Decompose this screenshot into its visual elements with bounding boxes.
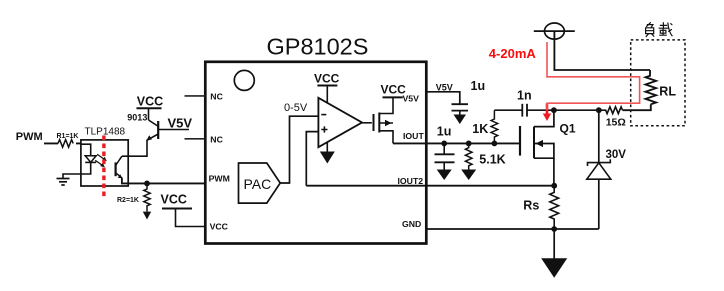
pin NC1 label xyxy=(210,91,223,101)
svg-text:GND: GND xyxy=(402,219,421,229)
capacitor C1 1u xyxy=(452,104,469,114)
wire V5V pin to cap xyxy=(426,92,460,104)
net label V5V left xyxy=(168,116,193,131)
transistor Q1 MOSFET xyxy=(520,110,554,186)
current loop source circle xyxy=(534,23,575,39)
svg-text:IOUT2: IOUT2 xyxy=(398,176,424,186)
wire VCC bar to VCC pin xyxy=(176,209,206,227)
load box dashed 负载 xyxy=(631,40,685,126)
pin VCC label xyxy=(210,221,229,231)
red inspection dashed line xyxy=(102,136,105,197)
label 1u second xyxy=(437,125,452,139)
capacitor C2 1u xyxy=(435,143,455,169)
svg-text:15Ω: 15Ω xyxy=(606,116,626,128)
power VCC near chip VCC pin bar xyxy=(162,208,192,210)
transistor internal MOSFET xyxy=(374,97,394,143)
label R1=1K xyxy=(57,133,79,140)
wire 9013 base to V5V xyxy=(158,129,189,131)
transistor Q2 9013 xyxy=(146,108,158,140)
wire source to loop top xyxy=(554,31,650,75)
pin GND label xyxy=(402,219,421,229)
wire IOUT2 net xyxy=(306,185,554,187)
zener diode D1 30V xyxy=(587,110,611,229)
label 4-20mA red xyxy=(489,46,537,61)
svg-text:4-20mA: 4-20mA xyxy=(489,46,537,61)
svg-text:PWM: PWM xyxy=(209,173,230,183)
resistor R4 5.1K xyxy=(465,143,472,169)
wire 1K top to 1n cap xyxy=(494,109,521,111)
svg-text:VCC: VCC xyxy=(137,94,163,108)
ground GND1 (earth bars) xyxy=(57,179,70,186)
junction node IOUT/1K xyxy=(492,141,498,147)
ground arrow below C2 xyxy=(437,170,452,181)
ground arrow below opamp xyxy=(320,142,335,164)
resistor Rs zigzag xyxy=(550,186,559,229)
svg-text:RL: RL xyxy=(659,84,676,98)
phototransistor of optocoupler xyxy=(116,156,123,178)
pin V5V label xyxy=(403,94,420,104)
junction node Q1 drain xyxy=(551,107,557,113)
resistor R3 1K xyxy=(491,110,498,143)
label PWM xyxy=(16,131,43,143)
label 1u first xyxy=(471,79,486,93)
svg-text:PAC: PAC xyxy=(244,176,272,192)
wire RL bottom to 15ohm xyxy=(623,104,651,110)
power VCC mosfet bar xyxy=(383,96,403,98)
power VCC top-left bar xyxy=(137,107,162,109)
junction node zener top xyxy=(596,107,602,113)
svg-text:NC: NC xyxy=(210,91,223,101)
svg-text:0-5V: 0-5V xyxy=(284,102,308,114)
resistor R5 15ohm zigzag xyxy=(599,107,623,114)
svg-text:R1=1K: R1=1K xyxy=(57,133,79,140)
IC title GP8102S xyxy=(267,34,369,60)
resistor R2 zigzag xyxy=(144,183,150,211)
pin NC2 label xyxy=(210,135,223,145)
label 5.1K xyxy=(479,152,505,166)
svg-text:30V: 30V xyxy=(606,149,627,161)
resistor R1 zigzag xyxy=(58,140,73,148)
label R2=1K xyxy=(117,197,139,204)
optocoupler U2 box xyxy=(81,140,128,186)
net label V5V right xyxy=(436,83,453,93)
LED light arrows xyxy=(95,154,107,167)
power VCC near chip VCC pin label xyxy=(161,193,187,207)
pin NC1 stub xyxy=(185,95,206,97)
ground arrow below R2 xyxy=(143,212,151,220)
label 1n xyxy=(517,88,532,102)
wire phototransistor collector to 9013 emitter xyxy=(122,140,147,157)
junction node GND/Rs xyxy=(551,226,557,232)
wire 1n to Q1 drain node xyxy=(527,109,599,111)
label 15ohm xyxy=(606,116,626,128)
resistor RL zigzag xyxy=(646,76,657,105)
ground arrow below C1 xyxy=(454,115,467,125)
svg-text:GP8102S: GP8102S xyxy=(267,34,369,60)
svg-text:PWM: PWM xyxy=(16,131,43,143)
ground arrow below 5.1K xyxy=(461,170,476,181)
label TLP1488 xyxy=(85,126,126,137)
pin IOUT label xyxy=(403,131,424,141)
junction node IOUT2/Rs xyxy=(551,183,557,189)
label RL xyxy=(659,84,676,98)
wire LED anode xyxy=(81,144,91,156)
svg-text:R2=1K: R2=1K xyxy=(117,197,139,204)
wire PAC output to opamp minus xyxy=(280,116,318,183)
junction node R2/PWM xyxy=(144,181,150,187)
svg-text:VCC: VCC xyxy=(210,221,229,231)
wire IOUT net xyxy=(393,142,520,144)
svg-text:1u: 1u xyxy=(437,125,452,139)
svg-text:1n: 1n xyxy=(517,88,532,102)
svg-text:Q1: Q1 xyxy=(560,121,576,135)
diode LED of optocoupler xyxy=(85,156,96,163)
svg-text:V5V: V5V xyxy=(168,116,193,131)
capacitor C3 1n xyxy=(522,104,527,117)
red measure arrow at Q1 gate xyxy=(543,104,551,122)
power VCC opamp bar xyxy=(317,85,337,87)
pin IOUT2 label xyxy=(398,176,424,186)
junction node IOUT/5.1K xyxy=(466,141,472,147)
wire opamp out to mosfet gate xyxy=(362,122,372,124)
ground main arrow xyxy=(541,229,567,278)
svg-text:VCC: VCC xyxy=(381,82,407,96)
svg-text:VCC: VCC xyxy=(314,72,340,86)
pin-1 marker circle xyxy=(234,70,254,90)
op-amp U1A triangle xyxy=(318,98,362,147)
wire VCC bar to opamp top xyxy=(326,86,328,104)
svg-text:9013: 9013 xyxy=(127,113,147,123)
wire phototransistor emitter to PWM pin xyxy=(122,178,205,184)
junction node IOUT/C2 xyxy=(441,141,447,147)
svg-text:5.1K: 5.1K xyxy=(479,152,505,166)
wire opamp plus to IOUT2 net xyxy=(306,132,318,186)
label 0-5V xyxy=(284,102,308,114)
svg-text:IOUT: IOUT xyxy=(403,131,424,141)
svg-text:1u: 1u xyxy=(471,79,486,93)
power VCC opamp label xyxy=(314,72,340,86)
svg-text:1K: 1K xyxy=(472,122,488,136)
svg-text:VCC: VCC xyxy=(161,193,187,207)
wire PWM input net xyxy=(44,142,81,144)
label 1K xyxy=(472,122,488,136)
label 9013 xyxy=(127,113,147,123)
label 负载 (drawn strokes) xyxy=(646,22,673,37)
red wire loop xyxy=(547,42,640,110)
label 30V xyxy=(606,149,627,161)
svg-text:V5V: V5V xyxy=(436,83,453,93)
svg-text:Rs: Rs xyxy=(523,199,539,213)
wire GND net xyxy=(426,228,599,230)
pin NC2 stub xyxy=(185,138,206,140)
IC U1 GP8102S body xyxy=(205,62,426,244)
svg-text:NC: NC xyxy=(210,135,223,145)
power VCC top-left label xyxy=(137,94,163,108)
wire LED cathode to ground xyxy=(63,162,91,178)
pin PWM label xyxy=(209,173,230,183)
block PAC xyxy=(239,163,281,203)
label Q1 xyxy=(560,121,576,135)
power VCC mosfet label xyxy=(381,82,407,96)
label Rs xyxy=(523,199,539,213)
